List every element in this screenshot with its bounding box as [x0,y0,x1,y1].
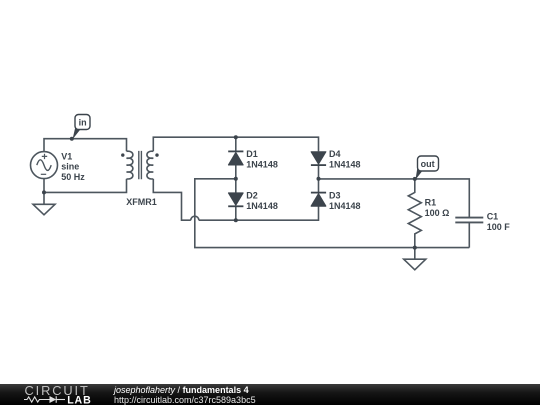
svg-text:1N4148: 1N4148 [329,201,361,211]
svg-text:D1: D1 [246,149,258,159]
svg-text:XFMR1: XFMR1 [126,197,157,207]
svg-text:D4: D4 [329,149,341,159]
svg-text:out: out [421,159,435,169]
svg-text:C1: C1 [487,212,499,222]
svg-text:in: in [79,117,87,127]
svg-text:V1: V1 [61,151,72,161]
svg-text:sine: sine [61,162,79,172]
svg-text:D2: D2 [246,191,258,201]
svg-text:D3: D3 [329,191,341,201]
svg-text:1N4148: 1N4148 [329,159,361,169]
svg-text:100 Ω: 100 Ω [425,208,450,218]
svg-text:1N4148: 1N4148 [246,159,278,169]
svg-text:100 F: 100 F [487,222,511,232]
svg-text:LAB: LAB [67,395,91,405]
svg-text:1N4148: 1N4148 [246,201,278,211]
svg-text:R1: R1 [425,198,437,208]
svg-text:50 Hz: 50 Hz [61,172,85,182]
